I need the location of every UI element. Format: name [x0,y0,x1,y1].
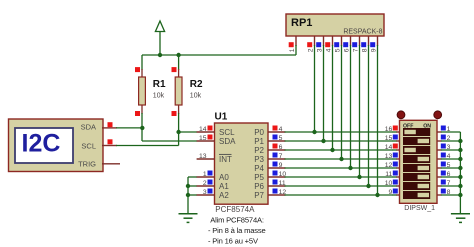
U1 pin 9 (P4) [254,162,285,173]
DIP pin 3 [437,144,451,151]
DIP pin 5 [437,162,451,169]
wire A2 [188,194,197,196]
wire DIP pin 3 to ground rail [441,149,460,151]
svg-text:DIPSW_1: DIPSW_1 [404,205,435,212]
resistor-pack RP1 body [286,14,384,36]
svg-text:PCF8574A: PCF8574A [215,205,255,214]
RP1 pin 8 [361,36,368,52]
svg-text:R2: R2 [190,79,203,90]
U1 pin 7 (P3) [254,153,285,164]
DIP switch element 6 [403,173,430,181]
svg-text:P2: P2 [254,146,264,155]
RP1 pin 7 [352,36,359,52]
junction ground rail at y=150 [458,148,462,152]
RP1 pin 1 [289,36,296,52]
RP1 pin 2 [307,36,314,52]
U1 pin 12 (P7) [254,189,286,200]
svg-text:R1: R1 [153,79,166,90]
DIP pin 11 [385,171,399,178]
svg-text:4: 4 [279,126,283,133]
U1 pin 5 (P1) [254,135,285,146]
junction SDA at R1 [140,126,144,130]
wire P3 net to DIP switch [285,158,394,160]
svg-text:13: 13 [199,153,207,160]
svg-text:9: 9 [389,189,393,196]
svg-text:2: 2 [203,180,207,187]
svg-text:14: 14 [199,126,207,133]
svg-text:12: 12 [385,162,393,169]
svg-text:15: 15 [385,135,393,142]
wire SDA net: down and right to U1 pin 15 [141,128,143,141]
svg-text:10: 10 [385,180,393,187]
wire +5V rail [142,54,296,56]
wire DIP pin 8 to ground rail [441,194,460,196]
svg-text:16: 16 [385,126,393,133]
junction at power symbol [158,53,162,57]
wire DIP pin 7 to ground rail [441,185,460,187]
wire P2 net to DIP switch [285,149,394,151]
svg-text:P5: P5 [254,173,264,182]
wire RP1 pin1 to +5V rail [295,45,297,55]
DIP switch DIPSW_1 body [397,111,442,212]
wire RP1 pin 7 to P5 net [359,45,361,177]
junction RP1 pin 6 / P4 [348,166,352,170]
wire RP1 pin 6 to P4 net [350,45,352,168]
U1 pin 4 (P0) [254,126,285,137]
svg-text:5: 5 [334,48,341,52]
svg-text:RESPACK-8: RESPACK-8 [343,29,382,36]
junction ground rail at y=195 [458,193,462,197]
junction RP1 pin 9 / P7 [375,193,379,197]
wire A1 [188,185,197,187]
svg-text:7: 7 [279,153,283,160]
svg-text:SCL: SCL [81,141,96,150]
svg-text:9: 9 [370,48,377,52]
svg-text:- Pin 16 au +5V: - Pin 16 au +5V [208,237,259,246]
svg-text:4: 4 [325,48,332,52]
U1 pin 10 (P5) [254,171,286,182]
DIP switch element 3 [403,146,430,154]
power +5V symbol [155,21,164,56]
wire DIP pin 4 to ground rail [441,158,460,160]
svg-text:I2C: I2C [22,130,61,158]
I2C pin TRIG [102,163,120,165]
DIP pin 12 [385,162,400,169]
junction RP1 pin 8 / P6 [366,184,370,188]
junction RP1 pin 2 / P0 [312,130,316,134]
resistor R2 [172,55,204,132]
junction RP1 pin 4 / P2 [330,148,334,152]
U1 pin 11 (P6) [254,180,286,191]
svg-text:SDA: SDA [219,137,236,146]
RP1 pin 9 [370,36,377,52]
svg-text:P1: P1 [254,137,264,146]
wire DIP pin 6 to ground rail [441,176,460,178]
DIP switch element 4 [403,155,430,163]
svg-text:A2: A2 [219,191,229,200]
svg-text:1: 1 [289,48,296,52]
DIP pin 7 [437,180,451,187]
svg-text:- Pin 8 à la masse: - Pin 8 à la masse [208,226,266,235]
svg-text:14: 14 [385,144,393,151]
U1 pin 13 (INT) [197,153,232,164]
U1 pin 1 (A0) [197,171,230,182]
DIP pin 2 [437,135,451,142]
wire RP1 pin 5 to P3 net [341,45,343,159]
junction A1 [186,184,190,188]
DIP switch element 8 [403,191,430,199]
wire DIP pin 2 to ground rail [441,140,460,142]
wire RP1 pin 2 to P0 net [314,45,316,132]
svg-text:15: 15 [199,135,207,142]
I2C pin SCL [102,145,117,147]
wire RP1 pin 3 to P1 net [323,45,325,141]
svg-text:5: 5 [279,135,283,142]
wire DIP pin 5 to ground rail [441,167,460,169]
wire RP1 pin 8 to P6 net [368,45,370,186]
svg-text:3: 3 [203,189,207,196]
svg-text:U1: U1 [215,112,228,123]
svg-text:8: 8 [361,48,368,52]
svg-text:TRIG: TRIG [78,159,96,168]
wire P0 net to DIP switch [285,131,394,133]
svg-text:6: 6 [279,144,283,151]
svg-text:10k: 10k [153,93,165,100]
wire P4 net to DIP switch [285,167,394,169]
junction RP1 pin 5 / P3 [339,157,343,161]
junction ground rail at y=141 [458,139,462,143]
wire SDA net: I2C to R1 junction [116,127,142,129]
DIP pin 4 [437,153,451,160]
svg-text:10k: 10k [190,93,202,100]
op-amp U1 body (PCF8574A) [215,112,269,214]
svg-text:A1: A1 [219,182,229,191]
wire P5 net to DIP switch [285,176,394,178]
svg-text:RP1: RP1 [291,17,312,29]
svg-text:P7: P7 [254,191,264,200]
RP1 pin 5 [334,36,341,52]
wire A0 [188,176,197,178]
svg-text:A0: A0 [219,173,229,182]
svg-text:1: 1 [203,171,207,178]
wire P6 net to DIP switch [285,185,394,187]
wire RP1 pin 4 to P2 net [332,45,334,150]
junction ground rail at y=168 [458,166,462,170]
wire SCL net: up to junction and right to U1 pin 14 [178,132,180,146]
I2C pin SDA [102,127,117,129]
junction at R2 top [176,53,180,57]
DIP pin 6 [437,171,451,178]
junction RP1 pin 7 / P5 [357,175,361,179]
svg-text:11: 11 [385,171,392,178]
junction RP1 pin 3 / P1 [321,139,325,143]
DIP switch element 1 [403,128,430,136]
DIP pin 8 [437,189,451,196]
svg-text:SCL: SCL [219,128,235,137]
ground symbol left [179,214,198,223]
DIP switch element 7 [403,182,430,190]
DIP pin 15 [385,135,400,142]
DIP pin 16 [385,126,400,133]
wire ground rail left [187,177,189,214]
wire ground rail right [459,132,461,214]
junction A2 [186,193,190,197]
junction ground rail at y=177 [458,175,462,179]
svg-text:13: 13 [385,153,393,160]
DIP pin 10 [385,180,400,187]
RP1 pin 4 [325,36,332,52]
svg-text:9: 9 [279,162,283,169]
U1 pin 15 (SDA) [197,135,237,146]
U1 pin 2 (A1) [197,180,230,191]
svg-text:7: 7 [352,48,359,52]
wire P1 net to DIP switch [285,140,394,142]
svg-text:P0: P0 [254,128,264,137]
svg-text:INT: INT [219,155,232,164]
U1 pin 3 (A2) [197,189,230,200]
RP1 pin 6 [343,36,350,52]
svg-text:2: 2 [307,48,314,52]
U1 pin 6 (P2) [254,144,285,155]
I2C module block [9,119,104,172]
DIP switch element 2 [403,137,430,145]
U1 pin 14 (SCL) [197,126,236,137]
svg-text:SDA: SDA [81,122,96,131]
svg-text:P4: P4 [254,164,264,173]
wire RP1 pin 9 to P7 net [377,45,379,195]
wire P7 net to DIP switch [285,194,394,196]
DIP pin 9 [389,189,400,196]
wire DIP pin 1 to ground rail [441,131,460,133]
ground symbol right [451,214,470,223]
DIP pin 14 [385,144,400,151]
note Alim PCF8574A [208,216,266,246]
DIP pin 13 [385,153,400,160]
wire SCL net: I2C to R2 column [116,145,179,147]
svg-text:P3: P3 [254,155,264,164]
svg-text:Alim PCF8574A:: Alim PCF8574A: [210,216,264,225]
DIP pin 1 [437,126,451,133]
svg-text:3: 3 [316,48,323,52]
RP1 pin 3 [316,36,323,52]
junction ground rail at y=186 [458,184,462,188]
resistor R1 [135,55,166,128]
junction ground rail at y=159 [458,157,462,161]
DIP switch element 5 [403,164,430,172]
svg-text:6: 6 [343,48,350,52]
svg-text:P6: P6 [254,182,264,191]
